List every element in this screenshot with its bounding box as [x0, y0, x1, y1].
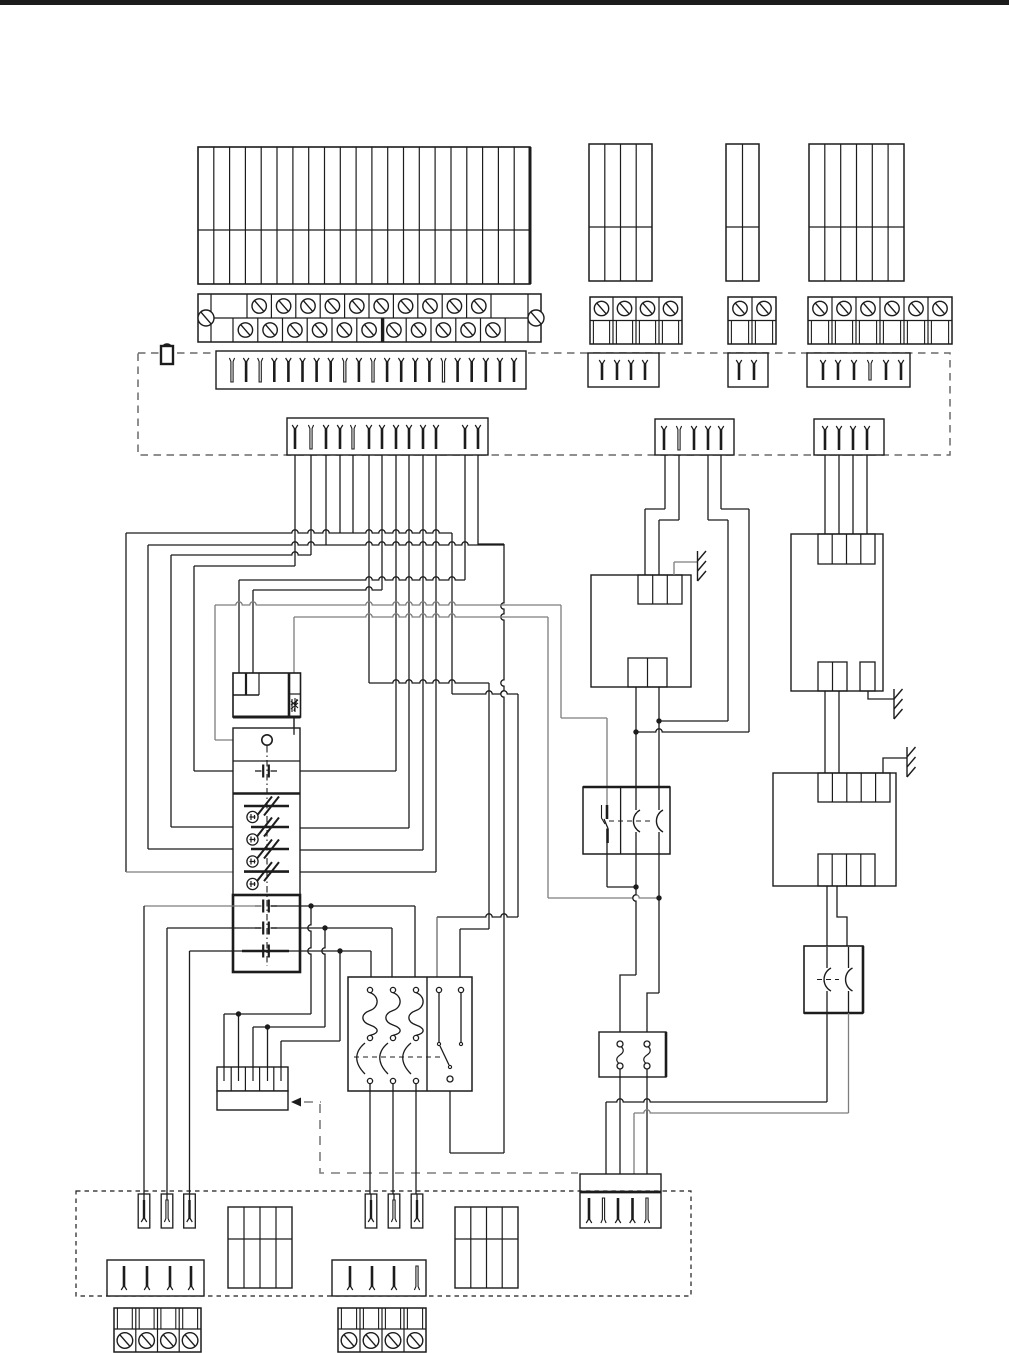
wire pin465 route	[239, 455, 465, 673]
connector J5 (4-pin)	[332, 1260, 426, 1296]
lower harness boundary (dashed)	[76, 1191, 691, 1296]
screw terminal TB6 body	[338, 1308, 426, 1352]
TB1 screws	[198, 299, 544, 337]
receptacle R6	[411, 1194, 423, 1228]
terminal unit X3 (2-column block)	[726, 144, 759, 281]
K2 to K3 wire pair	[825, 691, 839, 773]
connector J2 (5-pin)	[580, 1174, 661, 1228]
connector P1 (21-pin)	[216, 351, 526, 389]
cap row K3 left wire	[167, 928, 262, 1194]
long wire J3 to J2 (gray)	[634, 1013, 849, 1174]
K1 output wire 1	[633, 687, 639, 975]
fuse F1b	[644, 1041, 650, 1069]
screw terminal TB2 body	[590, 297, 682, 344]
fuse box F1	[599, 1032, 666, 1077]
screw terminal TB6 screws	[341, 1333, 423, 1349]
S2 connector contacts	[609, 787, 663, 854]
receptacle R3	[184, 1194, 196, 1228]
link wire y732	[636, 729, 749, 732]
wire pin311 level	[171, 455, 311, 555]
screw terminal TB5 body	[114, 1308, 201, 1352]
connector P7 (4-pin)	[814, 419, 884, 455]
screw terminal TB3 screws	[733, 301, 771, 315]
K3 ground wire	[883, 758, 907, 773]
switch contact row 1	[244, 797, 289, 816]
switch capacitor contact K3	[255, 922, 277, 935]
K3 output wire 2	[837, 886, 847, 947]
switch capacitor contact K1	[255, 765, 277, 778]
wire pin423 route	[290, 455, 423, 850]
wire P6-5 bypass right	[721, 455, 749, 732]
cap row K3 right wire	[271, 925, 393, 977]
switch contact row 3	[251, 840, 289, 859]
receptacle R4	[365, 1194, 377, 1228]
screw terminal TB2 screws	[594, 301, 677, 315]
wire pin409 route	[290, 455, 409, 828]
terminal unit X6 (grid)	[455, 1207, 518, 1288]
connector P4 (6-pin)	[807, 353, 910, 387]
cap row K2 right wire	[271, 903, 416, 977]
wire K1 to fuse 2	[647, 993, 659, 1041]
terminal unit X5 (grid)	[228, 1207, 292, 1288]
contactor coil 1	[357, 987, 377, 1083]
connector J1 (5-cell)	[217, 1067, 288, 1110]
ground G2	[894, 689, 903, 719]
contactor aux contact 2	[458, 987, 463, 1045]
wire P6-2 to K1	[659, 455, 679, 575]
receptacle R2	[161, 1194, 173, 1228]
connector box J3	[804, 946, 863, 1013]
connector P6 (5-pin)	[655, 419, 734, 455]
switch contact row 4	[244, 862, 289, 881]
connector P5 (13-pin)	[287, 418, 488, 455]
page header rule	[0, 0, 1009, 5]
interlock switch box S2	[583, 787, 670, 854]
screw terminal TB5 screws	[117, 1333, 198, 1349]
contactor coil 2	[380, 987, 400, 1083]
wire to switch contact4 (gray)	[126, 533, 244, 872]
wire pin340 to contact4 branch	[126, 455, 452, 533]
contactor coil 3	[403, 987, 423, 1083]
solenoid box K3	[773, 773, 896, 886]
switch plug symbol 4	[247, 878, 258, 889]
terminal unit X1 (21-column block)	[198, 147, 530, 284]
wire to switch cap1	[194, 566, 262, 771]
switch column body	[233, 728, 300, 972]
ignition feed wire (gray) left	[215, 605, 261, 740]
cap row K4 left wire	[190, 951, 262, 1194]
contactor box K5	[348, 977, 472, 1091]
ground G1	[698, 551, 707, 581]
terminal unit X4 (6-column block)	[809, 144, 904, 281]
relay box K2	[791, 534, 883, 691]
wire pin369 route	[369, 455, 489, 977]
receptacle R5	[388, 1194, 400, 1228]
switch plug symbol 1	[247, 811, 258, 822]
branch wire to J1 cell1	[224, 906, 311, 1071]
wire to switch contact2	[171, 555, 252, 827]
branch wire to J1 cell3	[253, 928, 325, 1071]
contactor aux switch	[436, 987, 453, 1082]
cap row K2 left wire	[144, 906, 262, 1194]
fuse F1a	[617, 1041, 623, 1069]
wire pin353 route	[437, 533, 518, 977]
screw terminal TB4 body	[808, 297, 952, 344]
S2 blade output	[607, 854, 636, 887]
fuse output wires	[620, 1069, 647, 1174]
connector P2 (4-pin)	[588, 353, 659, 387]
ignition feed wire (gray) right	[215, 602, 607, 788]
cap row K4 right wire	[271, 948, 372, 977]
connector J4 (4-pin)	[107, 1260, 204, 1296]
contactor dashed link	[354, 1056, 443, 1058]
long wire J3 to J2 (black)	[606, 1013, 827, 1174]
relay box K1	[591, 575, 691, 687]
wire P6-4 bypass right	[708, 455, 728, 721]
dashed route to J2 (gray)	[320, 1104, 578, 1173]
switch plug symbol 2	[247, 834, 258, 845]
K2 ground wire	[868, 691, 894, 699]
wires P7 to K2	[825, 455, 867, 534]
wire pin326 level	[148, 455, 504, 545]
link wire y721	[659, 720, 728, 722]
switch plug symbol 3	[247, 856, 258, 867]
K1 ground wire (gray)	[674, 562, 697, 575]
accessory wire (gray)	[272, 614, 659, 898]
receptacle R1	[138, 1194, 150, 1228]
wire pin382 route	[253, 455, 382, 673]
switch capacitor contact K4	[242, 945, 289, 958]
screw terminal TB4 screws	[813, 301, 947, 315]
wire P6-1 to K1	[645, 455, 665, 575]
S2 blade contact	[602, 788, 609, 854]
K3 output wire 1	[826, 886, 828, 947]
switch column axis (dash-dot)	[266, 746, 268, 966]
wire K1 to fuse 1	[620, 975, 636, 1041]
ignition switch housing S1	[233, 673, 301, 717]
terminal unit X2 (4-column block)	[589, 144, 652, 281]
wire pin478 route	[450, 544, 504, 1153]
pointer arrow	[291, 1098, 321, 1107]
coil output wires	[370, 1084, 416, 1194]
harness boundary (dashed box)	[138, 353, 950, 455]
wire pin396 route	[270, 455, 396, 771]
grommet symbol	[161, 344, 173, 364]
switch capacitor contact K2	[255, 900, 277, 913]
wire to switch contact3	[148, 545, 252, 849]
connector P3 (2-pin)	[728, 353, 768, 387]
K1 output wire 2	[656, 687, 661, 993]
switch rotor contact	[262, 717, 294, 745]
wire pin295 level	[194, 455, 295, 566]
wire pin436 route	[290, 455, 436, 872]
screw terminal row TB1	[198, 294, 541, 342]
ground G3	[907, 747, 916, 777]
switch contact row 2	[251, 818, 289, 837]
screw terminal TB3 body	[728, 297, 776, 344]
branch wire to J1 cell5	[281, 951, 340, 1071]
J3 contacts	[817, 947, 853, 1013]
